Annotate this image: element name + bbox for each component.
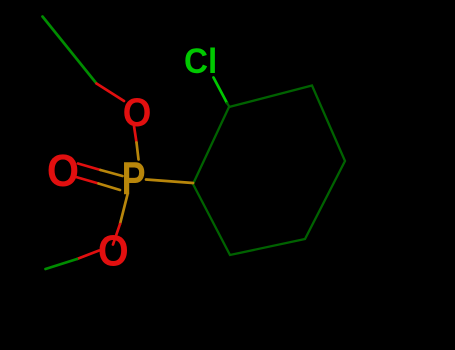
svg-text:O: O [98,226,129,275]
svg-text:Cl: Cl [184,42,217,81]
svg-text:P: P [122,153,146,204]
svg-text:O: O [47,146,79,196]
svg-text:O: O [123,91,152,136]
